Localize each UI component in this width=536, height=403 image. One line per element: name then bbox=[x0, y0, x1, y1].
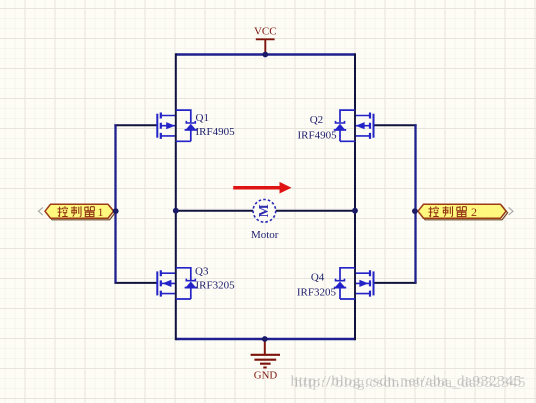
node right gate bus junction bbox=[412, 208, 418, 214]
wire motor right segment bbox=[276, 210, 355, 212]
power VCC bbox=[254, 26, 277, 54]
svg-text:http://blog.csdn.net/aba_da932: http://blog.csdn.net/aba_da932345 bbox=[295, 374, 527, 391]
svg-text:VCC: VCC bbox=[254, 26, 277, 38]
wire motor left segment bbox=[176, 210, 253, 212]
node VCC junction bbox=[262, 52, 268, 58]
wire left gate bus bbox=[114, 124, 116, 283]
wire top rail to Q2 drain bbox=[354, 53, 356, 110]
wire Q3 source to bottom rail bbox=[175, 299, 177, 340]
wire VCC top rail bbox=[176, 53, 355, 56]
svg-text:IRF3205: IRF3205 bbox=[297, 286, 337, 298]
motor M1 bbox=[253, 200, 276, 223]
svg-text:Motor: Motor bbox=[251, 229, 279, 241]
svg-text:IRF4905: IRF4905 bbox=[196, 126, 236, 138]
svg-text:Q1: Q1 bbox=[196, 112, 209, 124]
transistor Q1 bbox=[157, 110, 197, 141]
wire Q4 source to bottom rail bbox=[354, 299, 356, 340]
wire Q1 gate lead bbox=[114, 124, 156, 126]
svg-text:M: M bbox=[257, 204, 272, 217]
wire Q4 gate lead bbox=[374, 282, 416, 284]
svg-text:IRF4905: IRF4905 bbox=[297, 130, 337, 142]
wire GND bottom rail bbox=[176, 338, 355, 341]
wire top rail to Q1 drain bbox=[175, 53, 177, 110]
svg-text:1: 1 bbox=[98, 205, 104, 219]
port 控制留1 (control port 1) bbox=[38, 204, 115, 220]
node B (right bridge midpoint) bbox=[352, 208, 358, 214]
watermark bbox=[291, 373, 527, 392]
wire Q3 gate lead bbox=[114, 282, 156, 284]
node left gate bus junction bbox=[113, 208, 119, 214]
transistor Q3 bbox=[157, 268, 197, 299]
wire Q1 source to motor node A bbox=[175, 141, 177, 268]
svg-text:Q4: Q4 bbox=[311, 271, 325, 283]
svg-text:IRF3205: IRF3205 bbox=[196, 280, 236, 292]
node GND junction bbox=[262, 336, 268, 342]
svg-text:GND: GND bbox=[254, 370, 278, 382]
wire Q2 source to motor node B bbox=[354, 141, 356, 268]
annotation current direction arrow bbox=[233, 182, 291, 194]
svg-text:Q2: Q2 bbox=[310, 114, 323, 126]
svg-text:Q3: Q3 bbox=[195, 266, 209, 278]
wire right gate bus bbox=[414, 124, 416, 283]
ground GND bbox=[251, 339, 280, 382]
node A (left bridge midpoint) bbox=[173, 208, 179, 214]
transistor Q4 bbox=[334, 268, 374, 299]
transistor Q2 bbox=[334, 110, 374, 141]
wire Q2 gate lead bbox=[374, 124, 416, 126]
port 控制留2 (control port 2) bbox=[418, 204, 513, 220]
svg-text:2: 2 bbox=[471, 205, 477, 219]
